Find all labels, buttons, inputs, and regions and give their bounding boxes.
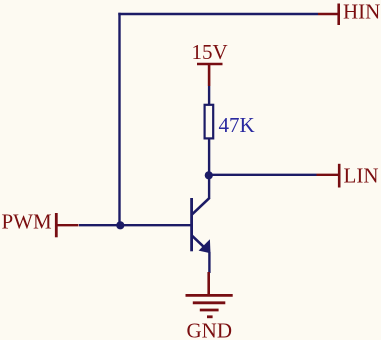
svg-text:GND: GND [187, 319, 233, 340]
wire: PWM to transistor base [79, 224, 191, 226]
junction dot PWM node [116, 221, 124, 229]
transistor Q1 emitter angled lead [192, 235, 209, 252]
ground bar 4 [207, 315, 213, 318]
wire: 15V to resistor top [208, 86, 210, 105]
svg-text:HIN: HIN [343, 0, 380, 24]
resistor R1 body [205, 105, 214, 139]
ground stem [207, 272, 210, 296]
port LIN bar [338, 164, 341, 188]
svg-text:LIN: LIN [344, 164, 379, 188]
junction dot collector node [205, 171, 213, 179]
wire: collector node to LIN [209, 174, 317, 176]
ground bar 1 [186, 294, 233, 297]
wire: resistor bottom to collector bend [208, 139, 210, 199]
ground bar 3 [200, 309, 219, 312]
port HIN bar [337, 4, 340, 26]
svg-text:47K: 47K [219, 113, 255, 137]
svg-text:PWM: PWM [2, 210, 53, 234]
transistor Q1 emitter arrowhead [199, 239, 211, 253]
power port 15V red stem [208, 64, 211, 86]
port LIN red stub [317, 174, 339, 176]
transistor Q1 collector angled lead [192, 198, 210, 215]
port HIN red stub [318, 13, 338, 15]
wire: emitter down [208, 252, 210, 273]
port PWM red stub [58, 224, 79, 226]
port PWM bar [55, 213, 58, 237]
ground bar 2 [193, 301, 226, 304]
svg-text:15V: 15V [192, 40, 228, 64]
transistor Q1 base bar [190, 198, 193, 251]
power port 15V bar [197, 63, 223, 66]
wire: left vertical from top corner to PWM node [118, 13, 120, 226]
wire: HIN net top horizontal [118, 13, 318, 15]
